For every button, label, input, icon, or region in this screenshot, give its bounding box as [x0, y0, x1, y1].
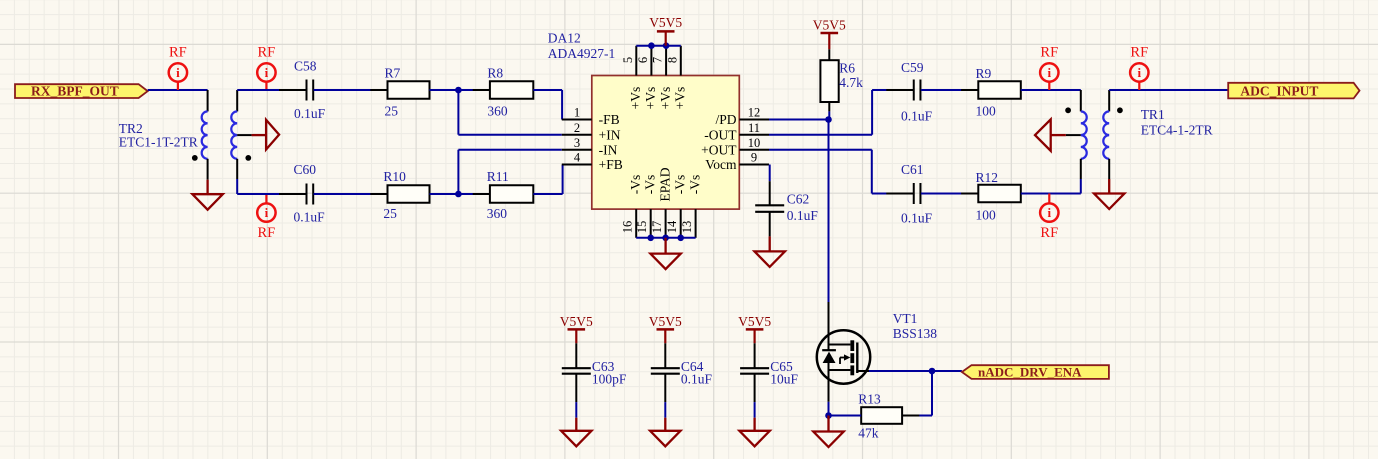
- svg-text:DA12: DA12: [548, 31, 581, 46]
- wire gate node to port: [932, 370, 962, 372]
- svg-text:25: 25: [385, 104, 399, 119]
- svg-text:+IN: +IN: [599, 127, 621, 142]
- probe RF3 bottom of TR2 secondary: [257, 194, 275, 241]
- label C60: [294, 162, 326, 225]
- svg-text:C60: C60: [294, 162, 317, 177]
- svg-text:R10: R10: [383, 169, 406, 184]
- resistor R7: [370, 81, 446, 99]
- port ADC_INPUT: [1228, 83, 1359, 99]
- transformer TR2 primary winding: [202, 111, 208, 158]
- ground TR2 primary: [192, 180, 222, 210]
- wire source down: [828, 402, 830, 416]
- svg-text:4.7k: 4.7k: [839, 75, 863, 90]
- junction node source: [825, 412, 832, 419]
- wire gate node down to R13: [902, 371, 932, 416]
- VT1 gate bar: [856, 343, 858, 374]
- svg-text:V5V5: V5V5: [649, 15, 682, 30]
- svg-text:V5V5: V5V5: [738, 314, 771, 329]
- transistor VT1 circle: [817, 330, 870, 383]
- VT1 drain tap: [829, 344, 851, 346]
- svg-text:-Vs: -Vs: [643, 175, 658, 195]
- junction bottom pin17: [662, 235, 669, 242]
- label C59: [901, 60, 933, 124]
- wire node B to pin3: [458, 150, 561, 194]
- capacitor C64: [651, 343, 680, 402]
- TR1 polarity dot primary: [1065, 107, 1071, 113]
- svg-text:RF: RF: [169, 45, 187, 61]
- junction bottom pin14: [677, 235, 684, 242]
- svg-text:ETC1-1T-2TR: ETC1-1T-2TR: [119, 134, 198, 149]
- transformer TR1 secondary winding: [1103, 111, 1109, 158]
- label R10: [383, 169, 406, 221]
- svg-text:+Vs: +Vs: [628, 87, 643, 110]
- svg-text:0.1uF: 0.1uF: [787, 208, 819, 223]
- transformer TR1 primary winding: [1081, 111, 1087, 158]
- svg-text:RF: RF: [1130, 45, 1148, 61]
- svg-text:BSS138: BSS138: [893, 326, 938, 341]
- VT1 source tap: [829, 369, 851, 371]
- svg-text:ADA4927-1: ADA4927-1: [548, 46, 616, 61]
- TR1 center tap with arrow: [1035, 119, 1081, 150]
- wire gate to port: [869, 370, 932, 372]
- junction top pin6: [648, 42, 655, 49]
- svg-text:i: i: [1047, 65, 1051, 80]
- power V5V5 above C65: [738, 314, 771, 343]
- transformer TR2 primary pin top: [207, 90, 209, 111]
- VT1 body diode: [822, 350, 836, 363]
- svg-text:i: i: [1137, 65, 1141, 80]
- label DA12: [548, 31, 616, 61]
- svg-text:0.1uF: 0.1uF: [681, 372, 713, 387]
- svg-text:10: 10: [748, 136, 761, 150]
- svg-text:25: 25: [383, 206, 397, 221]
- svg-text:6: 6: [636, 57, 650, 63]
- transformer TR1 primary pin bottom: [1080, 159, 1082, 194]
- svg-text:360: 360: [487, 206, 508, 221]
- transformer TR1 secondary pin top: [1108, 90, 1110, 111]
- svg-text:3: 3: [574, 136, 580, 150]
- ground below C62: [755, 212, 785, 267]
- svg-text:R11: R11: [487, 169, 509, 184]
- svg-text:-OUT: -OUT: [704, 127, 737, 142]
- VT1 drain lead: [828, 302, 830, 350]
- transformer TR1 secondary pin bottom: [1108, 159, 1110, 194]
- svg-text:R9: R9: [976, 66, 992, 81]
- wire R8 to pin1: [533, 90, 562, 120]
- svg-text:/PD: /PD: [715, 112, 736, 127]
- op-amp left pins 1-4: [562, 106, 623, 172]
- svg-text:RX_BPF_OUT: RX_BPF_OUT: [31, 83, 119, 98]
- svg-text:C58: C58: [294, 59, 317, 74]
- svg-text:i: i: [265, 65, 269, 80]
- svg-text:RF: RF: [258, 225, 276, 241]
- wire C58 to R7: [314, 89, 388, 91]
- probe RF5 below TR1 primary: [1040, 194, 1058, 242]
- wire TR1 to output port: [1109, 89, 1228, 91]
- VT1 source lead in circle: [828, 361, 830, 402]
- svg-text:R7: R7: [385, 66, 401, 81]
- svg-text:11: 11: [748, 121, 760, 135]
- ground below C65: [739, 402, 769, 446]
- resistor R13: [844, 407, 919, 424]
- wire PD node down to VT1 drain: [828, 120, 830, 303]
- svg-text:-Vs: -Vs: [687, 175, 702, 195]
- wire pin9 to C62: [769, 165, 771, 206]
- label R8: [487, 66, 508, 119]
- wire to C59: [872, 89, 913, 91]
- svg-text:+Vs: +Vs: [658, 87, 673, 110]
- transformer TR2 secondary pin bottom: [236, 159, 238, 194]
- capacitor C61: [886, 183, 948, 204]
- capacitor C65: [740, 343, 769, 402]
- svg-text:RF: RF: [258, 45, 276, 61]
- svg-text:5: 5: [621, 57, 635, 63]
- capacitor C58: [279, 80, 341, 101]
- svg-text:i: i: [265, 205, 269, 220]
- wire R9 to TR1: [1021, 89, 1081, 91]
- wire node A to pin2: [458, 90, 561, 135]
- svg-text:i: i: [1047, 205, 1051, 220]
- svg-text:+OUT: +OUT: [701, 142, 737, 157]
- capacitor C60: [279, 184, 341, 205]
- svg-text:C62: C62: [787, 192, 810, 207]
- svg-text:-FB: -FB: [599, 112, 620, 127]
- wire top supply bus: [636, 45, 681, 47]
- wire bottom supply bus: [636, 237, 695, 239]
- wire TR2 to C58: [237, 89, 306, 91]
- svg-text:100pF: 100pF: [592, 372, 627, 387]
- svg-text:+Vs: +Vs: [643, 87, 658, 110]
- op-amp top pins 5-8: [621, 46, 688, 110]
- resistor R9: [961, 81, 1038, 99]
- svg-text:R6: R6: [839, 61, 855, 76]
- TR1 polarity dot secondary: [1117, 107, 1123, 113]
- svg-text:R12: R12: [976, 170, 999, 185]
- VT1 gate lead: [857, 370, 869, 372]
- transformer TR2 primary pin bottom: [207, 159, 209, 180]
- wire C60 to R10: [314, 193, 388, 195]
- transformer TR1 primary pin top: [1080, 90, 1082, 111]
- wire pin11 to C59: [769, 90, 872, 135]
- wire R12 to TR1: [1021, 193, 1081, 195]
- svg-text:0.1uF: 0.1uF: [901, 109, 933, 124]
- svg-text:TR1: TR1: [1141, 107, 1165, 122]
- svg-text:RF: RF: [1040, 45, 1058, 61]
- svg-text:10uF: 10uF: [770, 372, 798, 387]
- label TR2: [119, 121, 198, 150]
- svg-text:C61: C61: [901, 162, 924, 177]
- label C64: [681, 359, 713, 387]
- svg-text:-IN: -IN: [599, 142, 618, 157]
- svg-text:2: 2: [574, 121, 580, 135]
- svg-text:7: 7: [651, 57, 665, 63]
- svg-text:0.1uF: 0.1uF: [294, 106, 326, 121]
- svg-text:R13: R13: [858, 392, 881, 407]
- ground below op-amp: [650, 238, 680, 269]
- svg-text:RF: RF: [1040, 225, 1058, 241]
- wire TR2 to C60: [237, 193, 306, 195]
- svg-text:4: 4: [574, 151, 581, 165]
- probe RF6 on output wire: [1130, 45, 1148, 91]
- svg-text:12: 12: [748, 106, 761, 120]
- junction bottom pin15: [647, 235, 654, 242]
- label C61: [901, 162, 933, 226]
- svg-text:i: i: [176, 65, 180, 80]
- svg-text:360: 360: [487, 104, 508, 119]
- transformer TR2 secondary winding: [231, 111, 237, 158]
- svg-text:ETC4-1-2TR: ETC4-1-2TR: [1141, 123, 1213, 138]
- capacitor C59: [886, 80, 948, 101]
- svg-text:9: 9: [751, 151, 757, 165]
- power V5V5 above R6: [813, 18, 846, 50]
- label C62: [787, 192, 819, 224]
- junction node A: [455, 87, 462, 94]
- label R9: [976, 66, 997, 119]
- label R11: [487, 169, 509, 221]
- wire C59 to R9: [921, 89, 978, 91]
- junction node gate: [929, 368, 936, 375]
- svg-text:47k: 47k: [858, 426, 879, 441]
- svg-text:C59: C59: [901, 60, 924, 75]
- svg-text:nADC_DRV_ENA: nADC_DRV_ENA: [978, 364, 1082, 379]
- label R13: [858, 392, 881, 441]
- resistor R11: [473, 185, 551, 203]
- svg-text:0.1uF: 0.1uF: [901, 211, 933, 226]
- VT1 channel bars: [850, 340, 854, 375]
- probe RF1 on input wire: [169, 45, 187, 91]
- TR2 polarity dot primary: [192, 155, 198, 161]
- svg-text:1: 1: [574, 106, 580, 120]
- op-amp right pins 12-9: [701, 106, 769, 172]
- label C63: [592, 359, 627, 387]
- label C65: [770, 359, 798, 387]
- svg-text:V5V5: V5V5: [649, 314, 682, 329]
- op-amp bottom pins 16-13: [621, 167, 703, 238]
- resistor R10: [370, 185, 446, 203]
- label R7: [385, 66, 401, 119]
- wire R10 to R11: [430, 193, 490, 195]
- wire port to TR2 primary: [148, 89, 208, 91]
- wire pin12 to R6 node: [769, 119, 829, 121]
- wire pin10 to C61: [769, 150, 872, 194]
- svg-text:+Vs: +Vs: [673, 87, 688, 110]
- svg-text:V5V5: V5V5: [813, 18, 846, 33]
- resistor R12: [961, 185, 1038, 203]
- TR2 polarity dot secondary: [245, 155, 251, 161]
- wire R11 to pin4: [533, 165, 562, 195]
- wire C61 to R12: [921, 193, 978, 195]
- power V5V5 above op-amp: [649, 15, 682, 46]
- port RX_BPF_OUT: [15, 83, 148, 98]
- junction top pin7: [663, 42, 670, 49]
- power V5V5 above C63: [560, 314, 593, 343]
- svg-text:16: 16: [621, 221, 635, 234]
- port nADC_DRV_ENA: [962, 364, 1109, 379]
- VT1 body arrow: [840, 354, 850, 364]
- svg-text:VT1: VT1: [893, 311, 918, 326]
- svg-text:100: 100: [976, 208, 997, 223]
- svg-text:0.1uF: 0.1uF: [294, 210, 326, 225]
- svg-text:8: 8: [665, 57, 679, 63]
- probe RF4 on R9-TR1 wire: [1040, 45, 1058, 91]
- svg-text:V5V5: V5V5: [560, 314, 593, 329]
- svg-text:R8: R8: [487, 66, 503, 81]
- junction node PD: [825, 116, 832, 123]
- label VT1: [893, 311, 938, 341]
- svg-text:13: 13: [680, 221, 694, 234]
- svg-text:-Vs: -Vs: [673, 175, 688, 195]
- svg-text:Vocm: Vocm: [705, 157, 737, 172]
- op-amp U1 body: [592, 76, 740, 210]
- svg-text:+FB: +FB: [599, 157, 623, 172]
- ground below C63: [561, 402, 591, 446]
- svg-text:14: 14: [665, 220, 679, 233]
- TR2 center tap with arrow: [237, 120, 279, 150]
- ground below C64: [650, 402, 680, 446]
- capacitor C63: [562, 343, 591, 402]
- resistor R8: [473, 81, 551, 99]
- power V5V5 above C64: [649, 314, 682, 343]
- label R12: [976, 170, 999, 223]
- svg-text:-Vs: -Vs: [628, 175, 643, 195]
- svg-text:17: 17: [650, 221, 664, 234]
- capacitor C62: [755, 205, 784, 212]
- probe RF2 top of TR2 secondary: [257, 45, 275, 91]
- label R6: [839, 61, 863, 91]
- wire source node to R13: [829, 415, 862, 417]
- wire R7 to R8: [430, 89, 490, 91]
- svg-text:ADC_INPUT: ADC_INPUT: [1240, 84, 1318, 99]
- svg-text:EPAD: EPAD: [657, 167, 672, 201]
- label TR1: [1141, 107, 1213, 138]
- transformer TR2 secondary pin top: [236, 90, 238, 111]
- svg-text:100: 100: [976, 104, 997, 119]
- svg-text:15: 15: [635, 221, 649, 234]
- wire to C61: [872, 193, 914, 195]
- resistor R6: [820, 49, 838, 119]
- ground below VT1: [813, 416, 843, 448]
- ground TR1 secondary: [1094, 194, 1124, 210]
- label C58: [294, 59, 326, 122]
- junction node B: [455, 191, 462, 198]
